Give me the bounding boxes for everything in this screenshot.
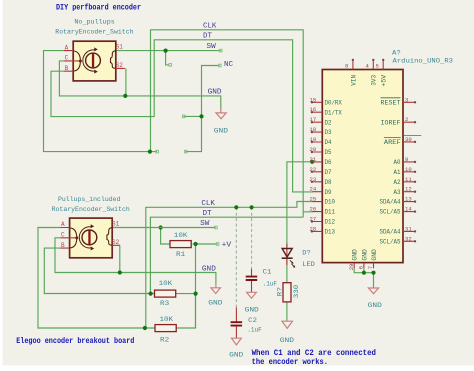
wire end square NC right bbox=[219, 64, 222, 67]
capacitor C1 bbox=[246, 269, 258, 292]
wire net CLK bottom (A2, R2, CLK2 label, Arduino D10) bbox=[38, 202, 313, 329]
svg-text:GND: GND bbox=[208, 300, 222, 308]
resistor R3 bbox=[155, 290, 176, 297]
svg-text:D4: D4 bbox=[325, 139, 332, 146]
svg-text:3: 3 bbox=[405, 96, 408, 103]
Arduino UNO R3 A? bbox=[312, 60, 414, 268]
svg-text:B: B bbox=[61, 242, 65, 249]
ground symbol top bbox=[216, 107, 226, 119]
svg-text:S1: S1 bbox=[116, 44, 124, 51]
svg-text:+5V: +5V bbox=[381, 74, 388, 86]
junction SW/S1 bbox=[164, 49, 168, 53]
svg-text:D11: D11 bbox=[325, 209, 336, 216]
junction R3 right +V bbox=[194, 292, 198, 296]
ground symbol C2 bbox=[232, 338, 242, 345]
overline AREF bbox=[384, 137, 401, 139]
svg-text:GND: GND bbox=[371, 249, 378, 261]
unconnected pin end dots left bbox=[311, 101, 313, 232]
svg-text:D?: D? bbox=[302, 249, 310, 257]
svg-text:GND: GND bbox=[214, 128, 228, 136]
svg-text:SW: SW bbox=[200, 220, 210, 228]
svg-text:7: 7 bbox=[367, 266, 374, 269]
ground symbol encoder 2 bbox=[211, 283, 220, 294]
rotary encoder SW2 (Pullups_included) bbox=[60, 218, 120, 258]
junction NC mid bbox=[199, 114, 203, 118]
svg-text:8: 8 bbox=[345, 63, 348, 70]
junction dash C2 bbox=[234, 205, 238, 209]
svg-text:C: C bbox=[61, 232, 65, 239]
svg-text:RotaryEncoder_Switch: RotaryEncoder_Switch bbox=[52, 206, 130, 214]
svg-text:GND: GND bbox=[368, 302, 382, 310]
wire net GND arduino bbox=[354, 268, 373, 288]
junction CLK/A1 bbox=[148, 150, 152, 154]
svg-text:GND: GND bbox=[245, 306, 259, 314]
svg-text:D0/RX: D0/RX bbox=[325, 99, 343, 106]
svg-text:10: 10 bbox=[405, 166, 412, 173]
svg-text:D7: D7 bbox=[325, 169, 332, 176]
wire net GND top rail (C1 pin and S2 to GND symbol) bbox=[59, 61, 220, 108]
capacitor C2 bbox=[231, 308, 243, 339]
wire end square NC mid bbox=[182, 115, 185, 118]
wire net GND bottom rail (C2 pin and S2-2 to GND symbol) bbox=[55, 238, 216, 284]
svg-text:GND: GND bbox=[202, 265, 216, 273]
svg-text:D2: D2 bbox=[325, 119, 332, 126]
wire end square NC bottom bbox=[184, 150, 187, 153]
svg-text:3V3: 3V3 bbox=[371, 74, 378, 85]
svg-text:Arduino_UNO_R3: Arduino_UNO_R3 bbox=[393, 57, 454, 65]
svg-text:DT: DT bbox=[203, 210, 212, 218]
svg-text:Pullups_included: Pullups_included bbox=[58, 196, 121, 204]
dashed link C1 to CLK bbox=[251, 207, 253, 269]
svg-text:20: 20 bbox=[310, 146, 317, 153]
svg-text:SW: SW bbox=[207, 43, 217, 51]
svg-text:S1: S1 bbox=[112, 221, 120, 228]
svg-text:NC: NC bbox=[224, 61, 233, 69]
svg-text:D1/TX: D1/TX bbox=[325, 109, 343, 116]
svg-text:AREF: AREF bbox=[384, 139, 401, 146]
wire net DT bottom (B2, R3, DT2 label, Arduino D11) bbox=[44, 248, 195, 328]
svg-text:14: 14 bbox=[405, 206, 412, 213]
wire net LED (Arduino D6/D7 to LED to R330 to GND) bbox=[287, 162, 313, 321]
svg-text:IOREF: IOREF bbox=[381, 119, 401, 126]
svg-text:D9: D9 bbox=[325, 189, 332, 196]
svg-text:SDA/A4: SDA/A4 bbox=[380, 199, 401, 206]
svg-text:R2: R2 bbox=[160, 336, 169, 344]
svg-text:A2: A2 bbox=[394, 179, 401, 186]
wire end square SW top bbox=[219, 49, 222, 52]
svg-text:10K: 10K bbox=[160, 316, 175, 324]
svg-text:A?: A? bbox=[392, 49, 401, 57]
svg-text:D3: D3 bbox=[325, 129, 332, 136]
svg-text:A3: A3 bbox=[394, 189, 401, 196]
wire end square SW bottom bbox=[215, 226, 218, 229]
unconnected pin end dots right bbox=[414, 101, 416, 242]
resistor R2 bbox=[155, 325, 176, 332]
unconnected pin end dots top bbox=[352, 59, 385, 61]
svg-text:CLK: CLK bbox=[201, 200, 215, 208]
svg-text:GND: GND bbox=[361, 249, 368, 261]
junction CLK2/A2/R2 bbox=[143, 326, 147, 330]
svg-text:31: 31 bbox=[405, 225, 412, 232]
dashed link C2 to CLK bbox=[235, 207, 237, 307]
svg-text:C1: C1 bbox=[263, 269, 272, 277]
svg-text:DT: DT bbox=[203, 32, 212, 40]
wire net CLK top (A1 to CLK label to Arduino) bbox=[44, 30, 314, 294]
svg-text:6: 6 bbox=[358, 266, 365, 269]
svg-text:D13: D13 bbox=[325, 229, 336, 236]
rotary encoder SW1 (No_pullups) bbox=[64, 41, 125, 81]
svg-text:.1uF: .1uF bbox=[247, 326, 261, 334]
resistor R? 330 bbox=[283, 283, 291, 302]
svg-text:B: B bbox=[65, 65, 69, 72]
svg-text:R3: R3 bbox=[160, 300, 169, 308]
svg-text:26: 26 bbox=[310, 206, 317, 213]
wire end square +V bbox=[216, 243, 219, 246]
svg-text:RotaryEncoder_Switch: RotaryEncoder_Switch bbox=[55, 29, 133, 37]
svg-text:A0: A0 bbox=[394, 159, 401, 166]
svg-text:5: 5 bbox=[376, 63, 379, 70]
svg-text:10K: 10K bbox=[174, 232, 189, 240]
svg-text:the encoder works.: the encoder works. bbox=[252, 358, 328, 367]
svg-text:SCL/A5: SCL/A5 bbox=[380, 238, 401, 245]
svg-text:GND: GND bbox=[352, 249, 359, 261]
svg-text:D8: D8 bbox=[325, 179, 332, 186]
junction dash C1 bbox=[250, 205, 254, 209]
svg-text:A: A bbox=[65, 44, 69, 51]
svg-text:LED: LED bbox=[302, 261, 315, 269]
junction GND/S2 bbox=[123, 94, 127, 98]
svg-text:R?: R? bbox=[277, 287, 285, 296]
junction DT2/B2/R3 bbox=[149, 292, 153, 296]
wire net SW bottom (S1 of encoder 2) bbox=[112, 227, 216, 229]
junction SW2/R1 bbox=[159, 225, 163, 229]
svg-text:30: 30 bbox=[405, 136, 412, 143]
svg-text:C: C bbox=[65, 55, 69, 62]
ground symbol arduino bbox=[368, 288, 378, 294]
wire end square A1 overshoot bbox=[156, 150, 159, 153]
svg-text:SCL/A5: SCL/A5 bbox=[380, 209, 401, 216]
junction gnd right bbox=[371, 271, 375, 275]
ground symbol C1 bbox=[247, 292, 257, 298]
wire net DT top (B1 to DT label to Arduino D9) bbox=[51, 40, 313, 192]
svg-text:CLK: CLK bbox=[203, 22, 217, 30]
resistor R1 bbox=[170, 241, 191, 248]
svg-text:.1uF: .1uF bbox=[263, 280, 277, 288]
svg-text:32: 32 bbox=[405, 235, 412, 242]
svg-text:RESET: RESET bbox=[381, 99, 401, 106]
wire end square SW stub bbox=[169, 64, 172, 67]
svg-text:11: 11 bbox=[405, 176, 412, 183]
svg-text:C2: C2 bbox=[248, 317, 257, 325]
wire net SW top (S1 of encoder 1) bbox=[116, 51, 221, 65]
svg-text:When C1 and C2 are connected: When C1 and C2 are connected bbox=[252, 349, 377, 358]
svg-text:A1: A1 bbox=[394, 169, 401, 176]
svg-text:A: A bbox=[61, 221, 65, 228]
svg-text:D5: D5 bbox=[325, 149, 332, 156]
svg-text:GND: GND bbox=[280, 337, 294, 345]
junction R1 right +V bbox=[194, 242, 198, 246]
wire net NC (dangling) bbox=[184, 66, 220, 152]
svg-text:+V: +V bbox=[222, 242, 233, 250]
svg-text:9: 9 bbox=[405, 156, 408, 163]
svg-text:25: 25 bbox=[310, 196, 317, 203]
junction GND2/S2-2 bbox=[118, 270, 122, 274]
svg-text:D6: D6 bbox=[325, 159, 332, 166]
svg-text:D10: D10 bbox=[325, 199, 336, 206]
svg-text:2: 2 bbox=[405, 116, 408, 123]
LED D? bbox=[282, 244, 296, 268]
junction gnd mid bbox=[362, 271, 366, 275]
strike line pin 30 bbox=[404, 135, 421, 137]
svg-text:GND: GND bbox=[229, 352, 243, 360]
svg-text:DIY perfboard encoder: DIY perfboard encoder bbox=[56, 3, 141, 12]
svg-text:29: 29 bbox=[348, 264, 355, 271]
svg-text:VIN: VIN bbox=[350, 74, 357, 85]
junction D6 pin bbox=[310, 160, 314, 164]
svg-text:Elegoo encoder breakout board: Elegoo encoder breakout board bbox=[16, 337, 134, 346]
svg-text:No_pullups: No_pullups bbox=[74, 19, 114, 27]
svg-text:GND: GND bbox=[208, 89, 222, 97]
svg-text:13: 13 bbox=[405, 196, 412, 203]
svg-text:D12: D12 bbox=[325, 219, 336, 226]
svg-text:21: 21 bbox=[310, 156, 317, 163]
ground symbol LED bbox=[282, 321, 292, 328]
svg-text:12: 12 bbox=[405, 186, 412, 193]
svg-text:10K: 10K bbox=[159, 280, 174, 288]
svg-text:SDA/A4: SDA/A4 bbox=[380, 229, 401, 236]
svg-text:S2: S2 bbox=[112, 239, 120, 246]
svg-text:24: 24 bbox=[310, 186, 317, 193]
overline RESET bbox=[381, 97, 401, 99]
svg-text:R1: R1 bbox=[176, 251, 185, 259]
svg-text:330: 330 bbox=[293, 285, 301, 298]
svg-text:S2: S2 bbox=[116, 62, 124, 69]
